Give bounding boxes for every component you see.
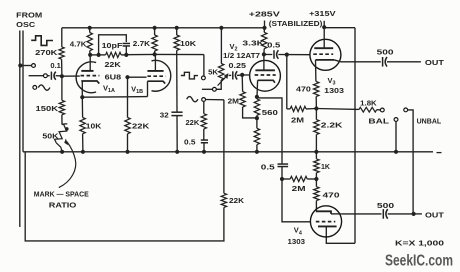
- svg-text:2M: 2M: [291, 115, 304, 124]
- svg-text:0.5: 0.5: [184, 139, 196, 146]
- svg-text:470: 470: [296, 84, 311, 93]
- svg-text:2M: 2M: [228, 96, 239, 105]
- svg-text:+285V: +285V: [249, 10, 280, 19]
- svg-text:3.3K: 3.3K: [242, 38, 264, 47]
- svg-text:32: 32: [160, 111, 169, 120]
- svg-text:OSC: OSC: [16, 20, 36, 29]
- svg-text:0.5: 0.5: [261, 162, 275, 171]
- svg-text:10K: 10K: [180, 39, 197, 48]
- svg-text:50K: 50K: [42, 131, 59, 140]
- svg-text:+315V: +315V: [309, 9, 336, 18]
- svg-text:2.2K: 2.2K: [321, 121, 343, 130]
- svg-text:500: 500: [377, 48, 394, 57]
- svg-text:OUT: OUT: [425, 58, 444, 67]
- svg-text:UNBAL: UNBAL: [417, 119, 442, 126]
- svg-text:0.5: 0.5: [267, 41, 280, 50]
- svg-text:10pF: 10pF: [102, 41, 124, 50]
- svg-text:OUT: OUT: [425, 211, 444, 220]
- svg-text:22K: 22K: [132, 122, 150, 131]
- svg-text:1K: 1K: [321, 162, 331, 171]
- svg-text:2.7K: 2.7K: [133, 39, 151, 48]
- svg-text:4.7K: 4.7K: [70, 39, 87, 48]
- svg-text:(STABILIZED): (STABILIZED): [269, 21, 323, 28]
- svg-text:2M: 2M: [292, 184, 306, 193]
- svg-text:0.25: 0.25: [229, 61, 247, 70]
- svg-text:22K: 22K: [105, 60, 122, 69]
- svg-text:5K: 5K: [208, 67, 218, 76]
- svg-text:470: 470: [323, 190, 340, 199]
- svg-text:MARK — SPACE: MARK — SPACE: [34, 189, 89, 198]
- svg-text:500: 500: [377, 201, 394, 210]
- svg-text:K=X 1,000: K=X 1,000: [395, 239, 444, 248]
- svg-text:22K: 22K: [186, 120, 200, 127]
- svg-text:6U8: 6U8: [105, 73, 122, 82]
- svg-text:1303: 1303: [324, 86, 344, 95]
- svg-text:270K: 270K: [35, 48, 58, 57]
- svg-text:SeekIC.com: SeekIC.com: [385, 253, 453, 270]
- svg-text:22K: 22K: [229, 196, 245, 205]
- svg-text:150K: 150K: [36, 104, 59, 113]
- svg-text:10K: 10K: [86, 122, 102, 131]
- svg-text:1303: 1303: [288, 237, 306, 246]
- svg-text:560: 560: [262, 108, 278, 117]
- svg-text:FROM: FROM: [16, 10, 42, 19]
- svg-text:0.1: 0.1: [50, 61, 61, 70]
- svg-text:1/2 12AT7: 1/2 12AT7: [223, 53, 260, 60]
- svg-text:RATIO: RATIO: [49, 200, 77, 209]
- svg-text:BAL: BAL: [368, 117, 389, 126]
- svg-text:1.8K: 1.8K: [360, 99, 377, 108]
